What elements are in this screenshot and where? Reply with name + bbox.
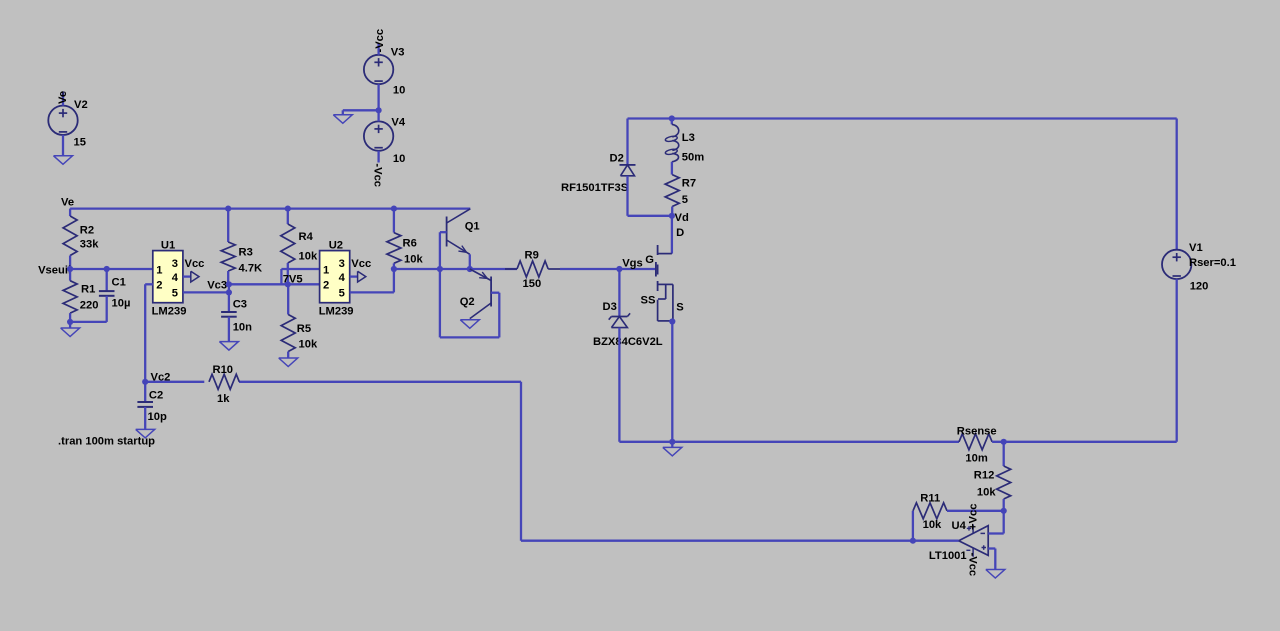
label C1 [112, 277, 126, 289]
svg-text:R2: R2 [80, 225, 94, 237]
value Rser=0.1 (V1) [1189, 257, 1236, 269]
value 150 (R9) [523, 278, 542, 290]
wire Vseuil to U1 pin1 [70, 268, 153, 270]
ground (R5) [279, 358, 298, 367]
label R9 [525, 250, 539, 262]
resistor R9 [505, 261, 560, 277]
svg-text:V4: V4 [391, 117, 405, 129]
label R2 [80, 225, 94, 237]
svg-text:D: D [676, 227, 684, 239]
node junction Q1 base tee [437, 266, 443, 272]
label R6 [403, 238, 417, 250]
mosfet source structure [658, 284, 673, 321]
svg-text:10p: 10p [148, 411, 167, 423]
svg-text:150: 150 [523, 278, 542, 290]
label S (mosfet source) [676, 302, 684, 314]
wire Vc3 to U2 pin2 [229, 283, 320, 285]
svg-text:10: 10 [393, 85, 405, 97]
pin 5 (U2) [339, 288, 345, 300]
pin 2 (U2) [323, 279, 329, 291]
ground (U4 + input) [986, 570, 1005, 579]
svg-text:U2: U2 [329, 239, 343, 251]
ground (C2) [136, 429, 155, 438]
capacitor C1 [99, 269, 115, 322]
node junction Rsense/R12 [1001, 439, 1007, 445]
wire Q1 emitter [469, 254, 471, 269]
label LT1001 [929, 550, 967, 562]
value 10u (C1) [112, 298, 131, 310]
svg-text:5: 5 [682, 194, 688, 206]
resistor R6 [387, 209, 401, 269]
net label -Vcc (V3 top) [374, 29, 386, 53]
wire Q2 base loop [440, 293, 499, 338]
pin 4 (U1) [172, 272, 179, 284]
node 7V5 junction [285, 281, 291, 287]
label R12 [974, 470, 995, 482]
value 220 (R1) [80, 300, 99, 312]
resistor R12 [997, 442, 1011, 511]
mosfet gate bar [655, 262, 657, 277]
node junction rail/R3 [225, 206, 231, 212]
node junction R6 bottom [391, 266, 397, 272]
label Q2 [460, 296, 475, 308]
wire Rsense to V1 [992, 441, 1177, 443]
svg-text:50m: 50m [682, 151, 704, 163]
label G (mosfet gate) [645, 254, 654, 266]
label SS [641, 294, 656, 306]
svg-text:Rser=0.1: Rser=0.1 [1189, 257, 1236, 269]
svg-text:R10: R10 [213, 364, 234, 376]
svg-text:10n: 10n [233, 322, 252, 334]
svg-text:10µ: 10µ [112, 298, 131, 310]
svg-text:V1: V1 [1189, 242, 1203, 254]
node junction Q1 emitter tee [467, 266, 473, 272]
value 120 (V1) [1190, 281, 1209, 293]
node junction pin5/C3 [226, 289, 232, 295]
svg-text:LT1001: LT1001 [929, 550, 967, 562]
value 15 (V2) [74, 137, 86, 149]
label R1 [81, 284, 95, 296]
svg-text:LM239: LM239 [152, 305, 187, 317]
svg-text:BZX84C6V2L: BZX84C6V2L [593, 336, 663, 348]
pin 3 (U2) [339, 258, 345, 270]
svg-text:Vc3: Vc3 [207, 279, 227, 291]
wire Vgs to D3 [618, 269, 620, 317]
wire Ve rail [70, 207, 470, 209]
svg-text:Vseuil: Vseuil [38, 265, 71, 277]
label D3 [603, 301, 617, 313]
value 10k (R11) [923, 519, 942, 531]
capacitor C2 [137, 382, 153, 430]
svg-text:4.7K: 4.7K [239, 263, 263, 275]
label C2 [149, 390, 163, 402]
svg-text:5: 5 [339, 288, 345, 300]
label R11 [920, 493, 940, 505]
node junction rail/R4 [285, 206, 291, 212]
svg-text:-Vcc: -Vcc [372, 163, 384, 187]
label D2 [610, 153, 624, 165]
node Vgs junction [616, 266, 622, 272]
ground (R1) [61, 328, 80, 337]
resistor R3 [221, 209, 235, 285]
wire R11 left [912, 511, 914, 541]
wire V1 bottom [1176, 279, 1178, 442]
node junction L3 top [669, 115, 675, 121]
label Q1 [465, 221, 480, 233]
value 10p (C2) [148, 411, 167, 423]
label LM239 (U1) [152, 305, 187, 317]
wire U2 pin5 to R6 node [350, 269, 394, 292]
net label Vc2 [151, 372, 171, 384]
node junction mosfet source [669, 318, 675, 324]
label R10 [213, 364, 234, 376]
label U1 [161, 239, 175, 251]
svg-text:10k: 10k [299, 339, 318, 351]
wire bottom rail [619, 441, 959, 443]
value 5 (R7) [682, 194, 688, 206]
net label +Vcc (U4) [968, 504, 980, 530]
ground (bottom rail) [663, 447, 682, 456]
svg-text:S: S [676, 302, 684, 314]
node Vc3 junction [226, 281, 232, 287]
wire U2 pin1 jog [281, 269, 319, 284]
pin 2 (U1) [156, 279, 162, 291]
svg-text:L3: L3 [682, 132, 695, 144]
label R3 [239, 247, 253, 259]
label V1 [1189, 242, 1203, 254]
net label 7V5 [283, 274, 303, 286]
wire R10 to op-amp [239, 382, 959, 541]
voltage source V3 [364, 44, 393, 111]
svg-text:LM239: LM239 [319, 305, 354, 317]
svg-text:Vgs: Vgs [622, 257, 643, 269]
wire U1 pin5 to Vc3 [183, 291, 229, 293]
resistor R4 [281, 209, 295, 285]
wire Vc2 to R10 [145, 381, 204, 383]
wire top rail [628, 117, 1177, 119]
label R5 [297, 323, 311, 335]
value BZX84C6V2L (D3) [593, 336, 663, 348]
pin 3 (U1) [172, 258, 178, 270]
svg-text:U4: U4 [952, 520, 967, 532]
ground (V2) [54, 156, 73, 165]
output arrow (U1 pin4) [183, 271, 199, 282]
svg-text:C1: C1 [112, 277, 126, 289]
svg-text:Vcc: Vcc [351, 258, 371, 270]
voltage source V2 [48, 92, 77, 156]
svg-text:1: 1 [156, 264, 162, 276]
label L3 [682, 132, 695, 144]
svg-text:Vd: Vd [675, 212, 689, 224]
resistor R7 [665, 175, 679, 216]
svg-text:Q1: Q1 [465, 221, 480, 233]
label U4 [952, 520, 967, 532]
svg-text:SS: SS [641, 294, 656, 306]
svg-text:220: 220 [80, 300, 99, 312]
svg-text:10k: 10k [404, 254, 423, 266]
diode D3 (zener) [609, 313, 630, 327]
resistor R5 [281, 284, 295, 358]
svg-text:120: 120 [1190, 281, 1209, 293]
svg-text:V3: V3 [391, 47, 405, 59]
node junction V3/V4/gnd [376, 107, 382, 113]
svg-text:3: 3 [339, 258, 345, 270]
node junction R1 bottom [67, 319, 73, 325]
wire R6 to R9 [394, 268, 517, 270]
resistor R1 [63, 269, 77, 322]
svg-text:R6: R6 [403, 238, 417, 250]
inductor L3 [665, 119, 679, 175]
node junction R11/output [910, 538, 916, 544]
svg-text:Ve: Ve [61, 197, 74, 209]
pin 5 (U1) [172, 288, 178, 300]
value 33k (R2) [80, 239, 99, 251]
svg-text:R11: R11 [920, 493, 940, 505]
net label Vgs [622, 257, 643, 269]
net label Vd [675, 212, 689, 224]
svg-text:G: G [645, 254, 654, 266]
diode D2 [620, 165, 636, 176]
svg-text:2: 2 [156, 279, 162, 291]
resistor R2 [63, 209, 77, 269]
wire D3 bottom [618, 328, 620, 442]
svg-text:33k: 33k [80, 239, 99, 251]
net label Vcc (U2 pin3) [351, 258, 371, 270]
svg-text:R9: R9 [525, 250, 539, 262]
op-amp U4 body [959, 525, 989, 557]
net label -Vcc (U4) [967, 553, 979, 577]
svg-text:1k: 1k [217, 393, 230, 405]
svg-text:R12: R12 [974, 470, 995, 482]
value 10 (V4) [393, 153, 405, 165]
svg-text:4: 4 [172, 272, 179, 284]
pin 1 (U2) [323, 264, 329, 276]
net label Ve (rail) [61, 197, 74, 209]
svg-text:R7: R7 [682, 178, 696, 190]
label V2 [74, 99, 88, 111]
net label -Vcc (V4 bottom) [372, 163, 384, 187]
label Rsense [957, 426, 997, 438]
wire V1 top [1176, 119, 1178, 250]
node Vseuil junction [67, 266, 73, 272]
ground (Q2 collector) [460, 320, 479, 329]
svg-text:D3: D3 [603, 301, 617, 313]
svg-text:Rsense: Rsense [957, 426, 997, 438]
wire D2 top [626, 119, 628, 165]
spice directive .tran [58, 436, 155, 448]
output arrow (U2 pin4) [350, 271, 366, 282]
svg-text:15: 15 [74, 137, 86, 149]
node junction rail/R6 [391, 206, 397, 212]
value 10k (R6) [404, 254, 423, 266]
svg-text:-Vcc: -Vcc [967, 553, 979, 577]
mosfet drain bar [658, 253, 672, 255]
ground (V3/V4 midpoint) [333, 115, 352, 124]
wire R1-C1 bottom [70, 322, 107, 328]
label R7 [682, 178, 696, 190]
svg-text:R5: R5 [297, 323, 311, 335]
ground (C3) [219, 342, 238, 351]
capacitor C3 [221, 312, 237, 342]
wire Q1 base [440, 232, 447, 337]
voltage source V4 [364, 110, 393, 162]
wire U4 inv input [988, 511, 1004, 534]
resistor R10 [209, 374, 239, 389]
wire [343, 110, 379, 115]
svg-text:Q2: Q2 [460, 296, 475, 308]
net label Vcc (U1 pin3) [185, 258, 205, 270]
svg-text:1: 1 [323, 264, 329, 276]
op-amp U2 body [320, 251, 350, 303]
value 10k (R12) [977, 487, 996, 499]
value RF1501TF3S (D2) [561, 182, 629, 194]
svg-text:10k: 10k [299, 251, 318, 263]
svg-text:V2: V2 [74, 99, 88, 111]
label V3 [391, 47, 405, 59]
wire R9 to gate [560, 268, 656, 270]
svg-text:RF1501TF3S: RF1501TF3S [561, 182, 629, 194]
svg-text:10: 10 [393, 153, 405, 165]
svg-text:10m: 10m [965, 452, 987, 464]
value 50m (L3) [682, 151, 704, 163]
value 1k (R10) [217, 393, 230, 405]
svg-text:+Vcc: +Vcc [968, 504, 980, 530]
pin 1 (U1) [156, 264, 162, 276]
svg-text:3: 3 [172, 258, 178, 270]
node Vc2 junction [142, 379, 148, 385]
svg-text:Vcc: Vcc [185, 258, 205, 270]
label LM239 (U2) [319, 305, 354, 317]
value 10 (V3) [393, 85, 405, 97]
svg-text:C2: C2 [149, 390, 163, 402]
label U2 [329, 239, 343, 251]
label V4 [391, 117, 405, 129]
svg-text:-Vcc: -Vcc [374, 29, 386, 53]
wire U1 pin2 to Vc2 [145, 284, 153, 382]
node Vd junction [669, 213, 675, 219]
svg-text:D2: D2 [610, 153, 624, 165]
value 10n (C3) [233, 322, 252, 334]
wire R11 to node [947, 510, 1004, 512]
label D (mosfet drain) [676, 227, 684, 239]
wire mosfet source down [671, 322, 673, 442]
svg-text:10k: 10k [923, 519, 942, 531]
resistor Rsense [959, 434, 992, 450]
svg-text:.tran 100m startup: .tran 100m startup [58, 436, 155, 448]
value 10m (Rsense) [965, 452, 987, 464]
svg-text:5: 5 [172, 288, 178, 300]
mosfet channel [657, 245, 659, 291]
node junction C1 top [104, 266, 110, 272]
value 4.7K (R3) [239, 263, 263, 275]
svg-text:4: 4 [339, 272, 346, 284]
svg-text:C3: C3 [233, 298, 247, 310]
svg-text:R3: R3 [239, 247, 253, 259]
svg-text:Ve: Ve [57, 91, 69, 104]
transistor Q1 [447, 209, 471, 255]
svg-text:2: 2 [323, 279, 329, 291]
svg-text:R1: R1 [81, 284, 95, 296]
net label Vseuil [38, 265, 71, 277]
wire U4 noninv input [988, 549, 995, 570]
wire D2 bottom [628, 176, 672, 216]
svg-text:U1: U1 [161, 239, 175, 251]
value 10k (R4) [299, 251, 318, 263]
node junction bottom gnd [669, 439, 675, 445]
resistor R11 [913, 503, 947, 519]
pin 4 (U2) [339, 272, 346, 284]
label C3 [233, 298, 247, 310]
voltage source V1 [1162, 250, 1191, 279]
value 10k (R5) [299, 339, 318, 351]
label R4 [299, 231, 314, 243]
op-amp U1 body [153, 251, 183, 303]
wire gnd stem [671, 442, 673, 448]
transistor Q2 [470, 269, 491, 319]
net label Ve (V2 pin) [57, 91, 69, 104]
net label Vc3 [207, 279, 227, 291]
svg-text:R4: R4 [299, 231, 314, 243]
svg-text:10k: 10k [977, 487, 996, 499]
node junction R12/R11 [1001, 508, 1007, 514]
wire Vc3 vertical [228, 284, 230, 312]
wire mosfet drain [671, 216, 673, 254]
